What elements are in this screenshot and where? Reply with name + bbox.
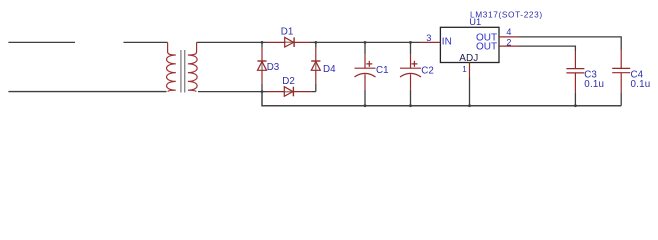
wire bridge left vertical (dark parts): [261, 42, 263, 91]
svg-text:2: 2: [506, 38, 511, 48]
transformer primary winding: [167, 42, 176, 91]
svg-text:3: 3: [426, 33, 431, 43]
svg-text:1: 1: [462, 65, 467, 74]
transformer core bars: [181, 50, 185, 93]
wire top-left segment 1: [8, 41, 75, 43]
svg-text:LM317(SOT-223): LM317(SOT-223): [470, 10, 543, 20]
capacitor C2: [410, 42, 412, 54]
diode D1: [267, 37, 310, 47]
wire ADJ to ground: [469, 78, 471, 106]
svg-text:D4: D4: [323, 64, 336, 75]
regulator U1 box: [440, 27, 499, 62]
wire OUT pin4 to C4: [519, 37, 622, 50]
junction at bridge top-right: [314, 41, 317, 44]
U1 pin 3 IN: [420, 41, 440, 43]
svg-text:C2: C2: [421, 65, 434, 76]
svg-text:C1: C1: [376, 65, 389, 76]
diode D3: [257, 48, 266, 84]
capacitor C4: [612, 50, 630, 92]
capacitor C1: [364, 42, 366, 54]
U1 pin 4 OUT: [499, 36, 519, 38]
junction C1 bottom: [364, 104, 367, 107]
svg-text:4: 4: [506, 27, 511, 37]
svg-text:D2: D2: [282, 76, 295, 87]
junction ADJ ground: [468, 104, 471, 107]
diode D4: [311, 48, 320, 84]
U1 pin 2 OUT: [499, 45, 519, 47]
junction C3 bottom: [574, 104, 577, 107]
svg-text:D3: D3: [267, 62, 280, 73]
wire bridge bottom branch (dark parts): [262, 91, 316, 93]
wire bridge top branch (dark parts): [262, 41, 316, 43]
wire top-left segment 2: [124, 41, 168, 43]
svg-text:IN: IN: [442, 37, 452, 48]
transformer secondary winding: [188, 42, 197, 91]
diode D2: [267, 87, 312, 97]
wire bottom-left: [8, 91, 166, 93]
svg-text:OUT: OUT: [476, 42, 497, 53]
wire secondary bottom to bridge: [198, 91, 262, 93]
U1 pin 1 ADJ: [469, 63, 471, 78]
junction at bridge bottom-left: [261, 90, 264, 93]
wire OUT pin2 to C3: [519, 46, 576, 51]
svg-text:0.1u: 0.1u: [631, 79, 651, 90]
junction C1 top: [364, 41, 367, 44]
wire bridge right vertical (dark parts): [315, 42, 317, 91]
wire secondary top to bridge: [197, 41, 262, 43]
wire DC+ top: [316, 41, 421, 43]
capacitor C3: [566, 51, 584, 92]
junction C2 bottom: [409, 104, 412, 107]
junction C2 top: [409, 41, 412, 44]
svg-text:ADJ: ADJ: [459, 53, 478, 64]
junction at bridge top-left: [261, 41, 264, 44]
ground rail: [262, 92, 621, 106]
svg-text:0.1u: 0.1u: [584, 79, 604, 90]
svg-text:D1: D1: [281, 26, 294, 37]
